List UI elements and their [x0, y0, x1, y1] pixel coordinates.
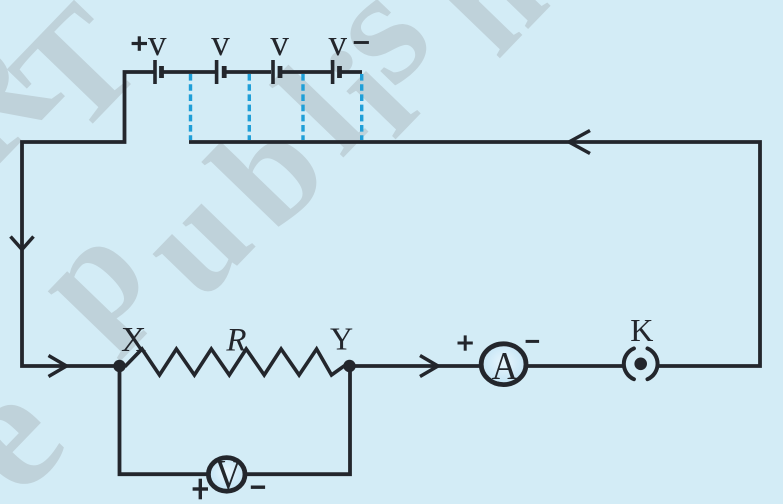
wire: Y to ammeter	[349, 364, 480, 368]
wire: lower battery bus to right side down to ammeter row	[189, 142, 760, 366]
svg-text:v: v	[211, 23, 230, 64]
arrow: current left on top bus	[569, 131, 590, 154]
wire: cell4 stub	[342, 70, 363, 74]
voltmeter V	[208, 458, 245, 492]
svg-text:v: v	[148, 23, 167, 64]
cell 4 negative plate	[337, 66, 342, 78]
node X junction dot	[113, 360, 125, 372]
cell 4 positive plate	[331, 60, 335, 84]
label +v (cell 1)	[132, 36, 147, 51]
svg-text:X: X	[121, 320, 146, 359]
cell 3 negative plate	[278, 66, 283, 78]
dashed tap line 3	[301, 74, 304, 140]
cell 2 positive plate	[215, 60, 219, 84]
voltmeter - terminal sign	[251, 486, 265, 489]
dashed tap line 2	[248, 74, 251, 140]
wire: battery link cell1-cell2	[163, 70, 215, 74]
wire: battery link cell3-cell4	[282, 70, 331, 74]
cell 3 positive plate	[271, 60, 275, 84]
arrow: current right into node X	[49, 356, 67, 377]
dashed tap line 1	[189, 74, 192, 140]
ammeter + terminal sign	[458, 335, 473, 350]
svg-text:v: v	[329, 23, 348, 64]
svg-text:R: R	[225, 323, 246, 359]
ammeter A	[481, 344, 526, 385]
node Y junction dot	[343, 360, 355, 372]
arrow: current down on left wire	[11, 237, 34, 250]
svg-text:Y: Y	[330, 320, 353, 356]
wire: voltmeter branch right	[247, 364, 351, 474]
wire: ammeter to key	[528, 364, 624, 368]
key K plug symbol	[624, 348, 658, 379]
cell 1 negative plate	[159, 66, 164, 78]
wire: voltmeter branch left	[120, 364, 208, 474]
svg-text:v: v	[270, 23, 289, 64]
cell 1 positive plate	[153, 60, 157, 84]
resistor R zigzag X to Y	[120, 349, 350, 375]
svg-text:A: A	[492, 344, 518, 387]
cell 2 negative plate	[222, 66, 227, 78]
svg-text:V: V	[215, 452, 242, 499]
svg-text:K: K	[630, 312, 653, 348]
voltmeter + terminal sign	[193, 479, 208, 500]
watermark	[0, 0, 574, 504]
ammeter - terminal sign	[526, 340, 540, 343]
wire: left loop from cell 1 down to node X	[22, 72, 156, 366]
wire: battery link cell2-cell3	[226, 70, 271, 74]
dashed tap line 4	[360, 74, 363, 140]
arrow: current right toward ammeter	[420, 356, 438, 377]
